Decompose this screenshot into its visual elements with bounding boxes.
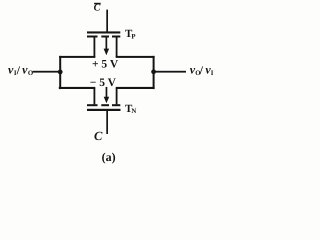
right rail (153, 56, 155, 89)
transistor TN body arrow from -5V (104, 87, 110, 103)
wire: left terminal (33, 71, 61, 73)
label TN (125, 103, 136, 115)
transistor TN right leg (116, 88, 118, 104)
label vO/vI (right) (190, 62, 214, 77)
node C-bar label (94, 3, 101, 14)
transistor TP body arrow to +5V (104, 38, 110, 56)
svg-text:(a): (a) (102, 150, 116, 164)
svg-text:I: I (211, 70, 214, 77)
transistor TP left leg (drain) (94, 38, 96, 58)
transistor TN gate bar (87, 109, 121, 111)
wire: gate of TP from C-bar (106, 10, 108, 33)
bottom rail left segment (59, 87, 96, 89)
svg-text:P: P (131, 34, 135, 41)
svg-text:N: N (131, 108, 136, 115)
transistor TP channel segments (87, 36, 120, 38)
transistor TP right leg (source) (116, 38, 118, 58)
svg-text:O: O (28, 70, 33, 77)
top rail left segment (59, 56, 95, 58)
left node dot (58, 70, 63, 75)
left rail (59, 56, 61, 89)
right node dot (151, 69, 156, 74)
svg-text:C: C (94, 129, 103, 143)
bottom rail right segment (116, 87, 155, 89)
wire: gate of TN to C (106, 111, 108, 134)
label TP (125, 28, 136, 41)
label vI/vO (left) (8, 62, 33, 77)
top rail right segment (116, 56, 155, 58)
transistor TP gate bar (87, 31, 120, 33)
transistor TN channel segments (87, 104, 120, 106)
transistor TN left leg (94, 88, 96, 104)
wire: right terminal (155, 71, 186, 73)
svg-text:+ 5 V: + 5 V (92, 58, 119, 70)
